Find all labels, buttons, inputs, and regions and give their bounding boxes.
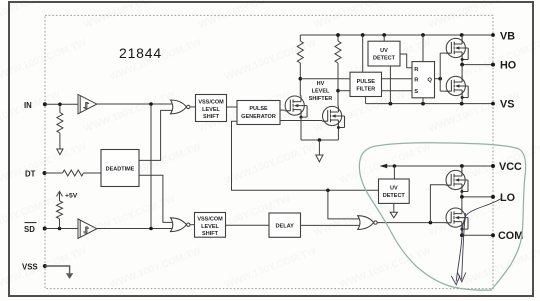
wire IN pulldown lead (59, 104, 61, 112)
node VSS pin dot (43, 264, 47, 268)
svg-text:+5V: +5V (65, 193, 78, 200)
wire NOR1 out (190, 106, 195, 108)
svg-text:SD: SD (24, 225, 35, 234)
node R input dot (299, 77, 303, 81)
svg-text:R: R (414, 78, 419, 84)
hand-drawn pen arrow stroke 2 (462, 213, 466, 280)
wire UV2 bottom to ground arrow (393, 203, 395, 212)
wire pulse-gen output to Q2 gate (280, 120, 322, 122)
wire branch up to Q5 gate (430, 185, 445, 223)
svg-text:LEVEL: LEVEL (202, 107, 220, 113)
wire SD row (45, 228, 78, 230)
transistor Q5 low-side source driver (446, 170, 468, 193)
node VS rail dots (389, 102, 393, 106)
ground open arrow HV shifter (316, 155, 323, 162)
svg-text:HV: HV (317, 81, 325, 87)
wire Q5 source to LO (461, 192, 463, 197)
wire Q6 source to COM rail (461, 229, 463, 235)
NOR gate G2 (low side) (171, 218, 191, 232)
wire DEADTIME bottom output to NOR2 (139, 175, 174, 222)
svg-text:21844: 21844 (119, 45, 162, 61)
wire latch top to rail (422, 35, 424, 62)
wire Q2 source down (337, 128, 339, 141)
wire UV detect bottom to VS rail (389, 66, 391, 104)
wire Q1 source down (300, 117, 302, 140)
wire IN branch down to SD line (150, 104, 152, 229)
svg-text:Q: Q (427, 77, 432, 83)
node SD/IN join dot (149, 227, 153, 231)
wire buffer U1 output to NOR1 (97, 103, 174, 105)
svg-text:HO: HO (500, 60, 516, 72)
svg-text:VSS/COM: VSS/COM (197, 217, 223, 223)
wire DT to resistor (45, 172, 63, 174)
block delay (269, 213, 301, 237)
svg-text:SHIFT: SHIFT (203, 114, 220, 120)
schmitt buffer U1 (IN) (78, 94, 97, 113)
block UV detect low side (379, 179, 410, 203)
ground arrow VSS (66, 273, 73, 279)
resistor DT series (63, 170, 84, 176)
node HO dots (460, 63, 464, 67)
svg-text:DT: DT (25, 169, 36, 178)
svg-text:FILTER: FILTER (356, 86, 375, 92)
wire IN row (45, 103, 78, 105)
wire down to ground arrow (318, 140, 320, 155)
wire tee down to NOR3 input (328, 190, 361, 219)
wire HO node line (462, 64, 493, 66)
resistor IN pulldown (57, 113, 63, 134)
svg-text:GENERATOR: GENERATOR (241, 114, 276, 120)
block VSS/COM level shift (low) (195, 213, 226, 238)
rail VCC with arrow (386, 165, 493, 167)
transistor Q3 high-side source driver (446, 38, 468, 61)
wire Q5 drain to VCC rail (461, 166, 463, 170)
node NOR3 branch dot (429, 221, 433, 225)
svg-text:R: R (414, 67, 419, 73)
hand-drawn pen arrow stroke 1 (456, 198, 502, 282)
arrow head VCC left (380, 164, 388, 169)
wire level shift to delay (226, 224, 270, 226)
deadtime block (101, 150, 139, 187)
wire DEADTIME top output to NOR1 (139, 110, 174, 160)
block pulse filter (350, 72, 382, 96)
wire R line to pulse filter (300, 78, 350, 80)
svg-text:UV: UV (380, 48, 388, 54)
wire Q4 drain from HO (461, 65, 463, 77)
wire Q3 source to HO node (461, 60, 463, 65)
wire buffer U2 output to NOR2 (97, 228, 174, 230)
node S input dot (336, 89, 340, 93)
NOR gate G3 (output or-gate) (358, 216, 377, 230)
node IN pin dot (43, 102, 47, 106)
ground open arrow UV2 (390, 212, 397, 218)
wire NOR3 output to gates (377, 222, 446, 224)
svg-text:LEVEL: LEVEL (201, 224, 219, 230)
wire COM line (462, 234, 493, 236)
wire S line to pulse filter (338, 90, 350, 92)
rail VB top (300, 34, 493, 36)
rail VS (366, 103, 493, 105)
svg-text:PULSE: PULSE (357, 79, 376, 85)
node Q branch dot (438, 77, 442, 81)
wire latch bottom to VS rail (422, 98, 424, 104)
NOR gate G1 (high side) (171, 100, 191, 114)
svg-text:S: S (414, 89, 418, 95)
wire Q6 drain from LO (461, 197, 463, 208)
wire rail to UV detect top (383, 35, 385, 41)
wire pullup to +5V arrow (59, 192, 61, 201)
svg-text:LEVEL: LEVEL (312, 88, 330, 94)
wire R line filter to latch (382, 78, 413, 80)
transistor Q6 low-side sink driver (446, 207, 468, 230)
wire level-shift to pulse generator (227, 106, 238, 108)
svg-text:LO: LO (500, 192, 515, 204)
wire VCC to UV detect 2 top (393, 166, 395, 179)
svg-text:VCC: VCC (499, 161, 522, 173)
resistor R_ls1 (299, 35, 301, 41)
label HV LEVEL SHIFTER (309, 81, 333, 102)
node IN junction dot (58, 103, 62, 107)
svg-text:UV: UV (390, 186, 398, 192)
svg-text:VSS: VSS (22, 262, 38, 271)
node VCC rail dots (393, 164, 397, 168)
wire NOR2 out (190, 224, 194, 226)
svg-text:IN: IN (24, 101, 32, 110)
block pulse generator (237, 101, 280, 125)
resistor SD pullup (57, 201, 63, 219)
svg-text:VS: VS (500, 99, 514, 111)
node COM dots (460, 233, 464, 237)
block UV detect high side (368, 41, 400, 66)
node SD junction dot (58, 227, 62, 231)
resistor R_ls2 (337, 35, 339, 41)
block VSS/COM level shift (high) (196, 95, 227, 122)
wire rail to pulse filter top (362, 35, 364, 72)
svg-text:DELAY: DELAY (275, 224, 294, 230)
wire pulse filter bottom to VS rail (365, 97, 367, 104)
svg-text:VSS/COM: VSS/COM (198, 99, 224, 105)
transistor Q1 level shift (285, 95, 307, 118)
ground open arrow below IN resistor (57, 149, 63, 155)
wire LO node line (462, 196, 493, 198)
svg-text:COM: COM (498, 230, 523, 242)
wire Q output (435, 78, 441, 80)
node LO dots (460, 195, 464, 199)
wire S line filter to latch (382, 90, 413, 92)
wire Q3 drain to VB rail (461, 35, 463, 38)
+5V supply arrow (57, 191, 63, 196)
wire pulse-gen left tap down to low side UV detect (232, 121, 379, 190)
transistor Q4 high-side sink driver (446, 76, 468, 99)
dashed IC boundary box (45, 15, 493, 288)
wire Q4 source to VS rail (461, 98, 463, 104)
node DT pin dot (43, 171, 47, 175)
wire R_ls2 bottom to Q2 drain (337, 63, 339, 106)
svg-text:DEADTIME: DEADTIME (106, 166, 135, 172)
svg-text:DETECT: DETECT (383, 193, 406, 199)
wire resistor to DEADTIME (84, 172, 102, 174)
hand-drawn green highlighter loop (359, 143, 525, 290)
svg-text:SHIFTER: SHIFTER (309, 96, 333, 102)
wire pulse-gen output to Q1 gate (280, 109, 285, 111)
schmitt buffer U2 (SD) (78, 219, 97, 238)
node rail dots (336, 33, 340, 37)
transistor Q2 level shift (322, 106, 344, 129)
wire VSS to ground (45, 266, 70, 273)
wire SD pullup lead (59, 219, 61, 229)
wire resistor to arrow (59, 133, 61, 149)
svg-text:VB: VB (500, 30, 515, 42)
node branch dot on IN line (149, 102, 153, 106)
wire R_ls1 bottom to Q1 drain (299, 63, 301, 96)
latch RS block (412, 62, 435, 98)
svg-text:SHIFT: SHIFT (202, 231, 219, 237)
wire UV detect out to latch R (400, 54, 412, 68)
wire sources join (301, 139, 338, 141)
node tee dot on long wire (326, 189, 330, 193)
node SD pin dot (43, 227, 47, 231)
svg-text:DETECT: DETECT (373, 56, 396, 62)
node source join dot (318, 138, 322, 142)
wire delay out to NOR3 (301, 224, 362, 226)
svg-text:PULSE: PULSE (249, 106, 268, 112)
wire Q branch to gates (440, 53, 446, 91)
